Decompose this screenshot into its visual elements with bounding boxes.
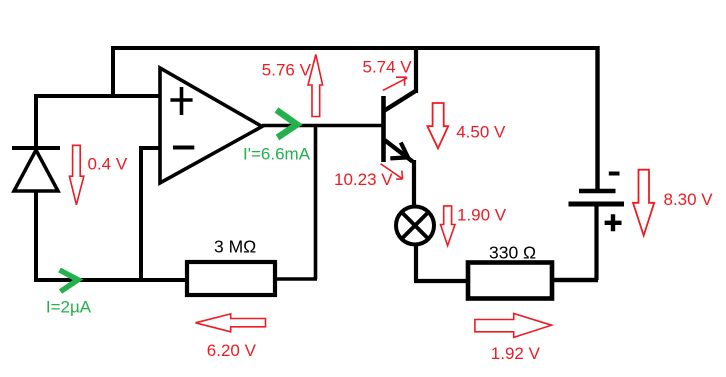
wire R2 to battery	[552, 278, 598, 282]
svg-text:I'=6.6mA: I'=6.6mA	[243, 145, 311, 164]
svg-text:0.4 V: 0.4 V	[88, 155, 128, 174]
svg-text:330 Ω: 330 Ω	[489, 243, 536, 263]
wire battery top vertical	[595, 46, 599, 189]
battery plus sign	[605, 214, 622, 231]
voltage arrow 1.92 V right	[475, 314, 552, 338]
wire op-amp minus input	[141, 146, 160, 280]
voltage arrow 0.4 V	[69, 145, 83, 205]
wire diode cathode vertical	[34, 191, 38, 280]
current arrow I' output	[277, 110, 298, 138]
transistor Q1	[384, 91, 416, 162]
svg-text:I=2µA: I=2µA	[46, 298, 92, 317]
wire battery bottom vertical	[552, 204, 598, 280]
voltage arrow 4.50 V	[427, 103, 448, 148]
op-amp U1	[160, 68, 262, 183]
resistor R1 3M	[187, 262, 275, 295]
wire diode anode vertical	[34, 94, 38, 149]
resistor R2 330	[468, 263, 552, 299]
wire feedback vertical	[314, 126, 318, 280]
svg-text:8.30 V: 8.30 V	[664, 190, 714, 209]
wire op-amp output to base	[262, 124, 384, 128]
pointer arrow 5.74 V	[383, 77, 408, 90]
current arrow I bottom	[60, 270, 79, 292]
wire left vertical from top rail	[111, 46, 115, 96]
diode D1	[12, 148, 60, 191]
svg-text:3 MΩ: 3 MΩ	[214, 237, 256, 257]
wire op-amp plus input	[35, 94, 160, 98]
wire emitter vertical to lamp	[412, 160, 416, 208]
svg-text:5.74 V: 5.74 V	[363, 58, 413, 77]
wire top rail	[113, 46, 598, 50]
svg-text:6.20 V: 6.20 V	[207, 341, 257, 360]
pointer arrow 10.23 V	[381, 164, 403, 179]
voltage arrow 5.76 V up	[308, 55, 323, 117]
svg-text:10.23 V: 10.23 V	[334, 170, 393, 189]
svg-text:1.92 V: 1.92 V	[491, 344, 541, 363]
battery minus sign	[609, 172, 620, 176]
voltage arrow 1.90 V	[441, 206, 456, 246]
wire collector vertical	[414, 46, 418, 93]
wire lamp to resistor R2	[414, 243, 468, 281]
battery B1	[569, 191, 625, 204]
wire bottom left rail	[34, 278, 187, 282]
lamp L1	[396, 207, 434, 245]
voltage arrow 8.30 V	[633, 170, 654, 236]
svg-text:4.50 V: 4.50 V	[456, 123, 506, 142]
svg-text:5.76 V: 5.76 V	[262, 61, 312, 80]
svg-text:1.90 V: 1.90 V	[457, 206, 507, 225]
wire feedback horizontal	[274, 277, 317, 281]
voltage arrow 6.20 V left	[196, 314, 266, 332]
